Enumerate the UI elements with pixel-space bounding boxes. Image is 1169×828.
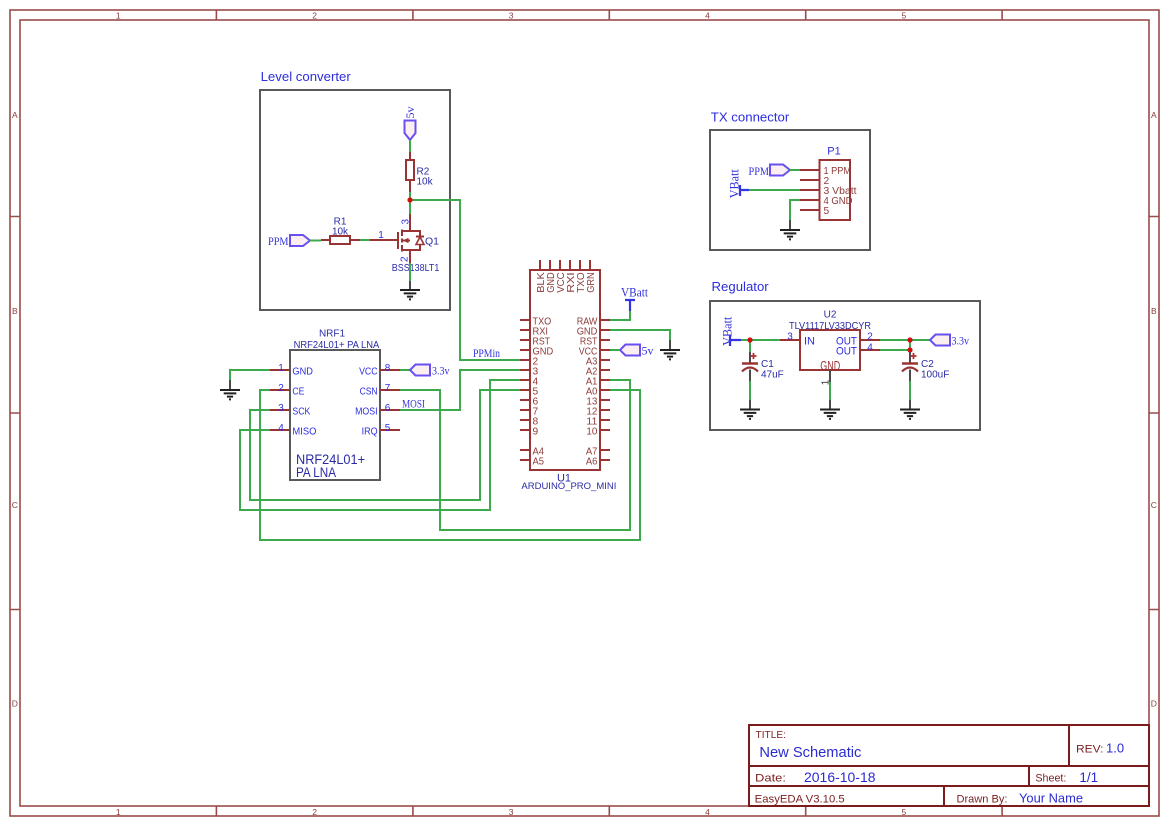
svg-text:2: 2 xyxy=(312,11,317,21)
svg-text:3.3v: 3.3v xyxy=(432,365,450,377)
svg-text:4: 4 xyxy=(705,11,710,21)
wire xyxy=(610,330,670,340)
net label PPMin xyxy=(473,348,500,360)
svg-text:10k: 10k xyxy=(417,176,434,187)
net flag PPM xyxy=(749,164,791,178)
wire xyxy=(880,349,910,351)
svg-text:B: B xyxy=(12,306,18,316)
svg-text:PPM: PPM xyxy=(749,164,770,178)
svg-text:3: 3 xyxy=(509,11,514,21)
svg-text:1: 1 xyxy=(278,363,284,374)
svg-text:10k: 10k xyxy=(332,227,349,238)
svg-text:Level converter: Level converter xyxy=(261,69,352,84)
svg-text:IN: IN xyxy=(804,335,815,347)
wire xyxy=(610,349,620,351)
svg-text:MISO: MISO xyxy=(292,426,316,437)
junction xyxy=(407,197,412,202)
wire xyxy=(749,189,800,191)
wire MISO to D4 xyxy=(240,380,520,510)
svg-text:C: C xyxy=(1151,500,1157,510)
junction xyxy=(907,347,912,352)
resistor R2 xyxy=(406,152,434,192)
net flag 5v xyxy=(620,343,654,357)
svg-text:MOSI: MOSI xyxy=(402,399,425,411)
svg-text:Your Name: Your Name xyxy=(1019,791,1083,806)
capacitor C2 xyxy=(902,352,949,381)
svg-text:VCC: VCC xyxy=(359,366,378,377)
net flag PPM xyxy=(268,234,310,248)
svg-text:BSS138LT1: BSS138LT1 xyxy=(392,262,440,274)
svg-text:4: 4 xyxy=(278,423,284,434)
svg-text:Drawn By:: Drawn By: xyxy=(957,793,1008,805)
wire xyxy=(409,192,411,200)
IC U1 ARDUINO_PRO_MINI xyxy=(520,260,616,492)
wire CE to A0 xyxy=(260,390,640,540)
IC NRF1 NRF24L01+ PA LNA xyxy=(270,329,400,481)
svg-text:100uF: 100uF xyxy=(921,369,949,380)
svg-text:2: 2 xyxy=(312,807,317,817)
svg-text:PA LNA: PA LNA xyxy=(296,465,336,480)
wire xyxy=(749,381,751,400)
ground xyxy=(400,281,420,299)
svg-text:A5: A5 xyxy=(533,457,545,468)
title block xyxy=(749,725,1149,806)
section box Regulator xyxy=(710,301,980,430)
wire xyxy=(409,140,411,152)
wire xyxy=(310,240,321,242)
net label MOSI xyxy=(402,399,425,411)
svg-text:3: 3 xyxy=(509,807,514,817)
power flag 5v xyxy=(403,107,417,141)
ground xyxy=(900,400,920,419)
wire xyxy=(741,339,750,341)
wire xyxy=(409,200,411,214)
svg-text:U2: U2 xyxy=(824,309,837,320)
svg-text:IRQ: IRQ xyxy=(362,426,378,437)
wire MOSI to D3 xyxy=(400,370,520,410)
svg-text:4: 4 xyxy=(705,807,710,817)
svg-text:5: 5 xyxy=(902,11,907,21)
svg-text:4: 4 xyxy=(867,342,873,353)
svg-text:1: 1 xyxy=(378,230,384,241)
svg-text:TLV1117LV33DCYR: TLV1117LV33DCYR xyxy=(789,320,871,332)
wire xyxy=(910,339,930,341)
wire PPMin net xyxy=(410,200,520,360)
section box Level converter xyxy=(260,90,450,310)
ground xyxy=(740,400,760,419)
svg-text:REV:: REV: xyxy=(1076,743,1104,755)
svg-text:5: 5 xyxy=(824,206,830,217)
svg-text:TITLE:: TITLE: xyxy=(756,730,787,741)
svg-text:B: B xyxy=(1151,306,1157,316)
wire xyxy=(880,339,910,341)
svg-text:5v: 5v xyxy=(403,107,417,119)
svg-text:D: D xyxy=(1151,699,1157,709)
svg-text:1: 1 xyxy=(116,11,121,21)
svg-text:Date:: Date: xyxy=(755,773,786,785)
svg-text:NRF1: NRF1 xyxy=(319,329,346,340)
svg-text:3.3v: 3.3v xyxy=(952,335,970,347)
net flag 3.3v xyxy=(930,335,969,348)
resistor R1 xyxy=(321,216,360,244)
wire xyxy=(909,381,911,400)
svg-text:VBatt: VBatt xyxy=(721,316,735,346)
svg-text:ARDUINO_PRO_MINI: ARDUINO_PRO_MINI xyxy=(521,481,616,492)
svg-text:2016-10-18: 2016-10-18 xyxy=(804,770,876,785)
wire xyxy=(409,263,411,281)
svg-text:5: 5 xyxy=(385,423,391,434)
wire xyxy=(360,239,370,241)
net label VBatt xyxy=(621,286,649,312)
capacitor C1 xyxy=(742,352,784,381)
connector P1 xyxy=(800,146,857,221)
junction xyxy=(907,337,912,342)
svg-text:CE: CE xyxy=(292,386,304,397)
ground xyxy=(780,220,800,239)
svg-text:Regulator: Regulator xyxy=(712,279,770,294)
svg-text:1.0: 1.0 xyxy=(1106,741,1124,756)
svg-text:A: A xyxy=(12,110,18,120)
wire xyxy=(790,169,800,171)
wire xyxy=(610,311,630,320)
svg-text:5v: 5v xyxy=(642,343,654,357)
ground xyxy=(820,400,840,419)
svg-text:9: 9 xyxy=(533,427,539,438)
svg-text:SCK: SCK xyxy=(292,406,310,417)
wire xyxy=(230,370,270,380)
wire CSN to A1 xyxy=(400,380,630,530)
section label Level converter xyxy=(261,69,352,84)
wire SCK to D5 xyxy=(250,390,520,500)
svg-text:GRN: GRN xyxy=(586,272,597,293)
svg-text:2: 2 xyxy=(867,332,873,343)
svg-text:3: 3 xyxy=(787,332,793,343)
svg-text:1/1: 1/1 xyxy=(1079,770,1098,785)
svg-text:EasyEDA V3.10.5: EasyEDA V3.10.5 xyxy=(755,793,845,805)
junction xyxy=(747,337,752,342)
transistor Q1 xyxy=(370,214,439,274)
wire xyxy=(750,339,780,341)
svg-text:7: 7 xyxy=(385,383,391,394)
ground xyxy=(660,340,680,359)
wire xyxy=(909,340,911,352)
svg-text:PPM: PPM xyxy=(268,234,289,248)
svg-text:D: D xyxy=(12,699,18,709)
svg-text:GND: GND xyxy=(292,366,313,377)
section label Regulator xyxy=(712,279,770,294)
net label VBatt xyxy=(728,169,750,199)
svg-text:New Schematic: New Schematic xyxy=(759,745,861,761)
svg-text:CSN: CSN xyxy=(360,386,378,397)
wire xyxy=(749,340,751,352)
svg-text:6: 6 xyxy=(385,403,391,414)
wire xyxy=(790,200,800,220)
svg-text:3: 3 xyxy=(278,403,284,414)
svg-text:P1: P1 xyxy=(827,146,840,158)
svg-text:MOSI: MOSI xyxy=(355,406,378,417)
svg-text:OUT: OUT xyxy=(836,345,857,357)
section label TX connector xyxy=(711,110,790,125)
svg-text:TX connector: TX connector xyxy=(711,110,790,125)
svg-text:10: 10 xyxy=(586,427,597,438)
svg-text:5: 5 xyxy=(902,807,907,817)
section box TX connector xyxy=(710,130,870,250)
regulator U2 xyxy=(780,309,880,385)
wire xyxy=(400,369,410,371)
svg-text:3: 3 xyxy=(401,219,412,225)
svg-text:C: C xyxy=(12,500,18,510)
svg-text:1: 1 xyxy=(116,807,121,817)
svg-text:Sheet:: Sheet: xyxy=(1035,773,1066,785)
svg-text:GND: GND xyxy=(820,359,840,373)
wire xyxy=(829,382,831,400)
ground xyxy=(220,380,240,399)
svg-text:2: 2 xyxy=(278,383,284,394)
net flag 3.3v xyxy=(410,365,450,378)
svg-text:VBatt: VBatt xyxy=(621,286,649,300)
svg-text:47uF: 47uF xyxy=(761,369,784,380)
svg-text:A: A xyxy=(1151,110,1157,120)
net label VBatt xyxy=(721,316,742,346)
svg-text:Q1: Q1 xyxy=(425,236,439,248)
svg-text:A6: A6 xyxy=(586,457,598,468)
svg-text:PPMin: PPMin xyxy=(473,348,500,360)
svg-text:8: 8 xyxy=(385,363,391,374)
